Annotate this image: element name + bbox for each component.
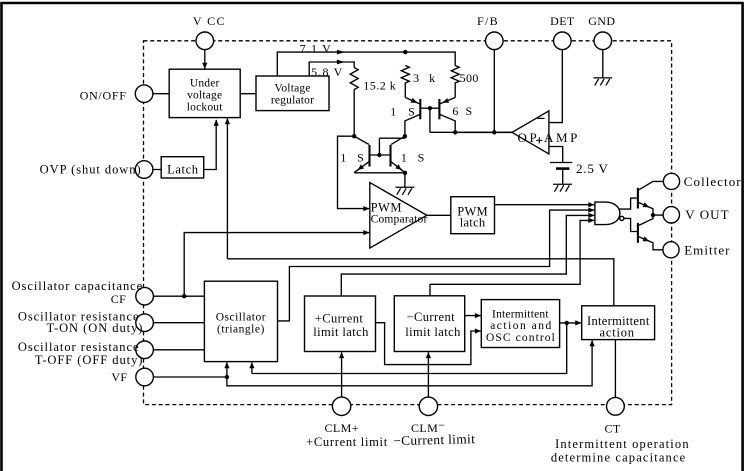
svg-text:−Current: −Current <box>407 310 456 324</box>
svg-text:OSC control: OSC control <box>486 332 556 344</box>
svg-text:+Current: +Current <box>315 312 364 326</box>
svg-text:1: 1 <box>340 150 346 164</box>
svg-text:Collector: Collector <box>684 174 742 189</box>
svg-text:Latch: Latch <box>167 163 199 177</box>
svg-text:Under: Under <box>190 77 220 89</box>
svg-text:Oscillator capacitance: Oscillator capacitance <box>12 279 144 293</box>
svg-text:T-ON (ON duty): T-ON (ON duty) <box>47 321 144 335</box>
svg-text:1: 1 <box>401 150 407 164</box>
svg-text:OVP (shut down): OVP (shut down) <box>40 163 142 177</box>
svg-text:1: 1 <box>390 104 396 118</box>
svg-text:voltage: voltage <box>187 89 222 101</box>
svg-text:ON/OFF: ON/OFF <box>80 89 127 103</box>
svg-text:CF: CF <box>111 292 126 306</box>
svg-text:k: k <box>429 71 435 85</box>
svg-text:S: S <box>408 104 415 118</box>
svg-text:determine capacitance: determine capacitance <box>551 450 687 464</box>
svg-text:VF: VF <box>111 370 127 384</box>
svg-text:Voltage: Voltage <box>274 83 310 95</box>
svg-text:S: S <box>418 150 425 164</box>
svg-text:lockout: lockout <box>187 101 223 113</box>
svg-text:F/B: F/B <box>477 14 499 28</box>
svg-text:+Current limit: +Current limit <box>306 435 388 449</box>
svg-text:−Current limit: −Current limit <box>393 431 475 448</box>
svg-text:15.2 k: 15.2 k <box>363 79 396 93</box>
svg-text:CT: CT <box>605 422 621 436</box>
svg-text:latch: latch <box>460 216 486 230</box>
svg-text:(triangle): (triangle) <box>217 324 265 336</box>
svg-text:7.1 V: 7.1 V <box>300 42 332 56</box>
svg-text:S: S <box>357 150 364 164</box>
svg-text:PWM: PWM <box>371 200 402 214</box>
svg-text:6: 6 <box>452 104 458 118</box>
svg-text:limit latch: limit latch <box>313 325 369 339</box>
svg-text:V CC: V CC <box>193 14 226 28</box>
svg-text:Intermittent: Intermittent <box>492 308 549 320</box>
svg-text:Comparator: Comparator <box>371 214 428 226</box>
svg-text:500: 500 <box>460 71 479 85</box>
svg-text:T-OFF (OFF duty): T-OFF (OFF duty) <box>35 353 144 367</box>
svg-text:regulator: regulator <box>271 95 314 107</box>
svg-text:DET: DET <box>550 14 575 28</box>
svg-text:Emitter: Emitter <box>684 243 730 258</box>
svg-text:3: 3 <box>413 71 419 85</box>
svg-text:action and: action and <box>490 320 553 332</box>
svg-text:Oscillator: Oscillator <box>216 312 266 324</box>
svg-text:GND: GND <box>588 14 615 28</box>
svg-text:limit latch: limit latch <box>405 325 461 339</box>
svg-text:2.5 V: 2.5 V <box>576 161 609 176</box>
svg-text:S: S <box>465 104 472 118</box>
svg-text:Oscillator resistance: Oscillator resistance <box>18 340 140 354</box>
svg-text:CLM+: CLM+ <box>325 421 359 435</box>
svg-text:5.8 V: 5.8 V <box>311 65 343 79</box>
svg-text:action: action <box>600 325 635 339</box>
svg-text:OP AMP: OP AMP <box>518 130 580 145</box>
svg-text:Intermittent operation: Intermittent operation <box>555 437 690 451</box>
svg-text:V OUT: V OUT <box>685 207 729 222</box>
